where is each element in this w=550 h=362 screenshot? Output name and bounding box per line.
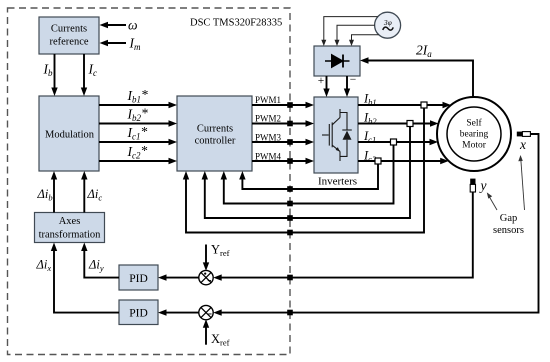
svg-text:Ib2: Ib2 (363, 111, 377, 127)
svg-text:Δic: Δic (87, 187, 103, 203)
svg-text:2Ia: 2Ia (416, 43, 432, 60)
svg-text:Ic: Ic (88, 62, 98, 79)
svg-text:Modulation: Modulation (45, 130, 95, 141)
svg-text:Ic2*: Ic2* (127, 143, 148, 161)
svg-text:ω: ω (128, 18, 138, 33)
svg-text:3φ: 3φ (383, 18, 392, 27)
svg-text:Ic1*: Ic1* (127, 124, 148, 142)
svg-text:PWM2: PWM2 (255, 114, 281, 124)
svg-text:Gap: Gap (500, 213, 518, 224)
svg-text:Motor: Motor (462, 141, 487, 151)
svg-text:PWM1: PWM1 (255, 95, 281, 105)
svg-text:PWM3: PWM3 (255, 133, 282, 143)
svg-text:Δiy: Δiy (88, 258, 104, 274)
svg-text:Currents: Currents (197, 124, 233, 135)
svg-text:Ib2*: Ib2* (127, 106, 149, 124)
svg-text:Ib: Ib (43, 62, 54, 79)
svg-text:sensors: sensors (493, 225, 524, 236)
svg-text:controller: controller (195, 136, 236, 147)
svg-text:−: − (350, 74, 357, 86)
svg-text:Ic1: Ic1 (363, 129, 376, 145)
svg-text:reference: reference (49, 37, 88, 48)
svg-text:x: x (519, 137, 526, 152)
svg-text:y: y (479, 178, 487, 193)
svg-text:Δix: Δix (36, 258, 52, 274)
svg-text:Δib: Δib (37, 187, 53, 203)
svg-text:Inverters: Inverters (318, 176, 357, 188)
svg-text:transformation: transformation (39, 230, 102, 241)
svg-text:Axes: Axes (59, 216, 81, 227)
svg-text:Ic2: Ic2 (363, 149, 377, 165)
svg-text:PWM4: PWM4 (255, 151, 282, 161)
svg-text:Self: Self (466, 118, 482, 129)
svg-text:bearing: bearing (460, 130, 489, 140)
svg-text:Currents: Currents (51, 24, 87, 35)
svg-text:Im: Im (129, 36, 142, 53)
svg-text:Ib1: Ib1 (363, 92, 377, 108)
svg-text:Ib1*: Ib1* (127, 87, 149, 105)
svg-text:Yref: Yref (211, 243, 230, 259)
svg-text:PID: PID (129, 273, 148, 285)
svg-text:+: + (318, 75, 325, 87)
svg-text:Xref: Xref (211, 332, 230, 348)
svg-text:DSC TMS320F28335: DSC TMS320F28335 (190, 17, 282, 28)
svg-text:PID: PID (129, 308, 148, 320)
